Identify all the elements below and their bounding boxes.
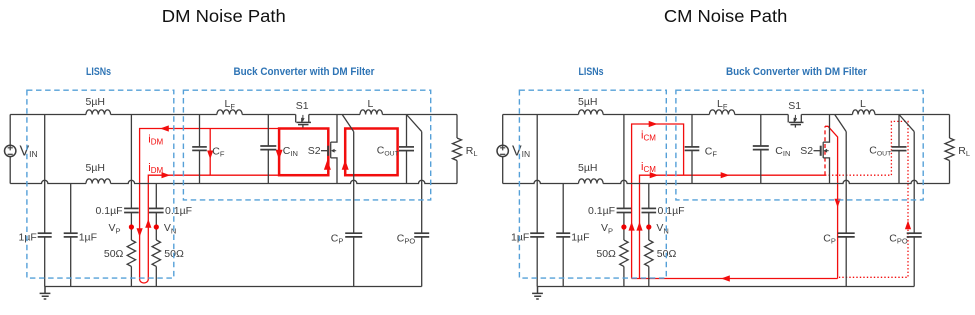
svg-text:iDM: iDM xyxy=(148,134,163,147)
wire return rail with hops (right) xyxy=(503,180,950,183)
transistor S2 (right) xyxy=(823,115,829,184)
wire ground rail (right) xyxy=(538,286,915,288)
inductor 5uH bottom (left) xyxy=(86,179,111,184)
wire top rail (right) xyxy=(503,114,950,116)
svg-text:VIN: VIN xyxy=(512,143,530,159)
DM current arrow S2-right up xyxy=(342,160,349,170)
CM current arrow P up xyxy=(629,222,635,231)
svg-text:iCM: iCM xyxy=(641,161,656,174)
capacitor 1uF A (right) xyxy=(536,115,538,234)
transistor S1 (right) xyxy=(787,115,789,123)
DM current arrow bottom-left xyxy=(162,172,171,178)
capacitor CF (left) xyxy=(199,115,201,147)
capacitor 1uF A (left) xyxy=(44,115,46,234)
svg-text:CF: CF xyxy=(705,146,718,159)
svg-text:S1: S1 xyxy=(296,100,309,112)
voltage source VIN (left) xyxy=(9,115,11,146)
svg-text:50Ω: 50Ω xyxy=(104,248,124,260)
CM path through S2 (dashed wire) xyxy=(824,126,826,175)
CM noise path N-line (wire) xyxy=(640,175,826,278)
resistor 50ohm P (right) xyxy=(620,240,628,266)
svg-text:1µF: 1µF xyxy=(18,231,36,243)
svg-text:1µF: 1µF xyxy=(511,231,529,243)
svg-text:CIN: CIN xyxy=(283,145,298,158)
wire switch node to CP (right) xyxy=(835,115,847,132)
ground (left) xyxy=(40,287,51,300)
svg-text:L: L xyxy=(368,98,374,110)
DM current arrow S2-left up xyxy=(324,160,331,170)
node VP (left) xyxy=(129,224,134,229)
transistor S1 (left) xyxy=(295,115,297,123)
inductor 5uH bottom (right) xyxy=(579,179,604,184)
LISN dashed box (right) xyxy=(519,90,666,278)
DM current arrow LISN down xyxy=(137,228,143,237)
svg-text:0.1µF: 0.1µF xyxy=(658,205,685,217)
inductor 5uH top (right) xyxy=(579,110,604,115)
capacitor COUT (left) xyxy=(406,115,408,147)
svg-text:iDM: iDM xyxy=(148,162,163,175)
svg-text:RL: RL xyxy=(958,145,970,158)
transistor S2 (left) xyxy=(331,115,337,184)
LISN dashed box (left) xyxy=(27,90,174,278)
capacitor CIN (right) xyxy=(760,115,762,147)
CM current arrow N up xyxy=(636,222,642,231)
svg-text:CPO: CPO xyxy=(889,233,908,246)
resistor RL (left) xyxy=(456,115,458,139)
CM current arrow mid right xyxy=(650,172,659,178)
svg-text:5µH: 5µH xyxy=(86,162,105,174)
CM path through CPO (dotted wire) xyxy=(825,121,908,277)
wire output node to CPO (right) xyxy=(899,115,914,132)
CM current arrow CP down xyxy=(835,199,841,208)
svg-text:CIN: CIN xyxy=(775,145,790,158)
svg-text:S2: S2 xyxy=(800,145,813,157)
svg-text:iCM: iCM xyxy=(641,129,656,142)
CM return path (wire) xyxy=(632,278,838,280)
svg-text:DM Noise Path: DM Noise Path xyxy=(162,6,286,26)
DM current arrow top-left xyxy=(160,125,169,131)
svg-text:0.1µF: 0.1µF xyxy=(96,205,123,217)
node VN (left) xyxy=(154,224,159,229)
capacitor CPO (right) xyxy=(913,132,915,234)
svg-text:S2: S2 xyxy=(308,145,321,157)
resistor 50ohm N (right) xyxy=(645,240,653,266)
svg-text:VP: VP xyxy=(109,222,121,235)
ground (right) xyxy=(532,287,543,300)
capacitor CP (right) xyxy=(845,132,847,234)
svg-text:CM Noise Path: CM Noise Path xyxy=(664,6,788,26)
svg-text:LISNs: LISNs xyxy=(579,66,604,78)
svg-text:1µF: 1µF xyxy=(79,231,97,243)
buck dashed box (right) xyxy=(676,90,923,200)
CM current arrow mid right 2 xyxy=(721,172,730,178)
svg-text:VP: VP xyxy=(601,222,613,235)
capacitor CP (left) xyxy=(353,132,355,234)
svg-text:RL: RL xyxy=(466,145,478,158)
svg-text:5µH: 5µH xyxy=(578,96,597,108)
svg-text:CP: CP xyxy=(331,233,344,246)
inductor LF (right) xyxy=(709,110,734,115)
svg-text:COUT: COUT xyxy=(377,145,399,158)
capacitor CF (right) xyxy=(691,115,693,147)
wire output node to CPO (left) xyxy=(407,115,422,132)
DM current arrow LISN up xyxy=(145,219,151,228)
svg-text:CF: CF xyxy=(212,146,225,159)
wire return rail with hops (left) xyxy=(10,180,457,183)
wire ground rail (left) xyxy=(45,286,422,288)
buck dashed box (left) xyxy=(183,90,430,200)
svg-text:0.1µF: 0.1µF xyxy=(165,205,192,217)
node VN (right) xyxy=(646,224,651,229)
CM current arrow top right xyxy=(649,121,658,127)
wire top rail (left) xyxy=(10,114,457,116)
capacitor COUT (right) xyxy=(898,115,900,147)
DM current arrow CF down xyxy=(207,151,213,160)
svg-text:LISNs: LISNs xyxy=(86,66,111,78)
resistor RL (right) xyxy=(949,115,951,139)
svg-text:CP: CP xyxy=(823,233,836,246)
svg-text:1µF: 1µF xyxy=(571,231,589,243)
CM current arrow return left xyxy=(721,275,730,281)
capacitor CPO (left) xyxy=(421,132,423,234)
svg-text:VIN: VIN xyxy=(20,143,38,159)
svg-text:S1: S1 xyxy=(788,100,801,112)
svg-text:L: L xyxy=(860,98,866,110)
capacitor 0.1uF N (right) xyxy=(648,184,650,209)
capacitor CIN (left) xyxy=(267,115,269,147)
svg-text:LF: LF xyxy=(225,98,236,111)
inductor L (left) xyxy=(360,110,382,115)
resistor 50ohm P (left) xyxy=(127,240,135,266)
svg-text:5µH: 5µH xyxy=(86,96,105,108)
inductor LF (left) xyxy=(217,110,242,115)
inductor L (right) xyxy=(853,110,875,115)
DM noise path CF branch (wire) xyxy=(209,129,211,176)
svg-text:LF: LF xyxy=(717,98,728,111)
capacitor 0.1uF P (right) xyxy=(623,115,625,209)
capacitor 1uF B (left) xyxy=(70,184,72,234)
svg-text:5µH: 5µH xyxy=(578,162,597,174)
capacitor 0.1uF N (left) xyxy=(155,184,157,209)
capacitor 1uF B (right) xyxy=(562,184,564,234)
DM noise path thin loop (wire) xyxy=(140,129,280,283)
CM noise path P-line (wire) xyxy=(632,124,684,279)
resistor 50ohm N (left) xyxy=(152,240,160,266)
voltage source VIN (right) xyxy=(502,115,504,146)
wire switch node to CP (left) xyxy=(342,115,354,132)
svg-text:CPO: CPO xyxy=(397,233,416,246)
svg-text:COUT: COUT xyxy=(869,145,891,158)
inductor 5uH top (left) xyxy=(86,110,111,115)
DM current arrow CIN down xyxy=(276,150,283,160)
capacitor 0.1uF P (left) xyxy=(130,115,132,209)
CM path S2 to CP (wire) xyxy=(825,126,838,278)
svg-text:50Ω: 50Ω xyxy=(596,248,616,260)
DM noise loop COUT (wire) xyxy=(345,129,397,176)
CM current arrow CPO up xyxy=(905,221,911,230)
svg-text:Buck Converter with DM Filter: Buck Converter with DM Filter xyxy=(234,66,376,78)
node VP (right) xyxy=(621,224,626,229)
svg-text:Buck Converter with DM Filter: Buck Converter with DM Filter xyxy=(726,66,868,78)
svg-text:0.1µF: 0.1µF xyxy=(588,205,615,217)
DM noise loop CIN-S1-S2 (wire) xyxy=(279,129,328,176)
